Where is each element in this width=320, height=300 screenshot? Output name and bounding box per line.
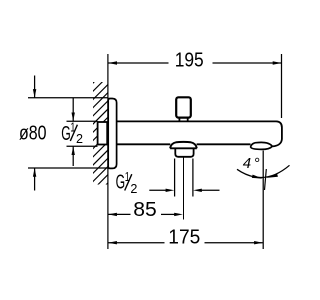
svg-text:195: 195 bbox=[175, 49, 204, 71]
wall socket G1/2 bbox=[98, 122, 108, 145]
svg-text:ø80: ø80 bbox=[19, 122, 47, 144]
svg-text:2: 2 bbox=[130, 181, 137, 196]
spout bottom segments bbox=[117, 143, 171, 145]
tip vertical reference line bbox=[262, 151, 264, 250]
wall G1/2 arrows bbox=[72, 98, 74, 121]
tube G1/2 leader arrows bbox=[149, 189, 166, 191]
tip outlet bump bbox=[251, 142, 273, 149]
dim 195 line bbox=[108, 62, 168, 64]
svg-text:G: G bbox=[116, 172, 126, 194]
svg-text:°: ° bbox=[254, 155, 260, 172]
tube extension lines bbox=[174, 159, 176, 197]
outlet skirt bbox=[175, 148, 193, 157]
svg-text:2: 2 bbox=[76, 131, 83, 146]
escutcheon plate bbox=[108, 99, 116, 169]
dim o80 arrows bbox=[34, 76, 36, 98]
wall G1/2 ext lines bbox=[67, 120, 98, 122]
outlet centerline bbox=[183, 158, 185, 220]
angle arc bbox=[237, 165, 290, 177]
svg-text:85: 85 bbox=[133, 199, 157, 221]
tube G1/2 label bbox=[116, 169, 138, 196]
diverter outlet dome bbox=[170, 142, 197, 148]
diverter knob bbox=[176, 97, 191, 117]
svg-text:175: 175 bbox=[168, 226, 200, 248]
svg-text:G: G bbox=[61, 123, 70, 145]
spout body top bbox=[117, 121, 282, 127]
tilted 4deg line bbox=[265, 169, 267, 190]
dim 175 line bbox=[108, 242, 164, 244]
dim 85 line bbox=[108, 213, 130, 215]
dome base line bbox=[170, 147, 197, 149]
dim o80 ext lines bbox=[28, 97, 108, 99]
svg-text:4: 4 bbox=[243, 155, 251, 172]
wall face / extension line bbox=[107, 54, 109, 249]
arc arrowheads bbox=[252, 175, 263, 179]
knob neck bbox=[178, 118, 180, 122]
spout right edge bbox=[272, 128, 282, 147]
ext line spout tip bbox=[281, 54, 283, 118]
wall G1/2 label bbox=[61, 119, 83, 146]
